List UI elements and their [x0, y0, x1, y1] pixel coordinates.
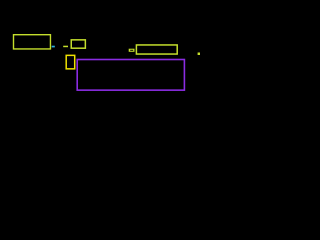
- resistor R3 body: [136, 45, 177, 54]
- pin 1 stub of R2: [63, 46, 68, 48]
- pin pad of R3 (dark center hole): [130, 50, 133, 51]
- capacitor C1 body: [66, 55, 75, 69]
- pin stub at right edge: [198, 53, 201, 56]
- wire segment (cyan net stub at R1 pin 2): [52, 46, 55, 48]
- resistor R2 body: [71, 40, 85, 48]
- resistor R1 body: [14, 35, 51, 49]
- pin pad of R3 (outer): [129, 49, 135, 52]
- IC U1 body: [77, 60, 184, 91]
